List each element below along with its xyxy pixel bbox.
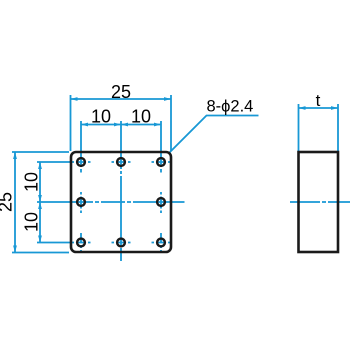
svg-text:t: t	[316, 91, 321, 110]
arrow 10-left mid-up	[38, 195, 42, 202]
centerline vertical col2 full	[120, 121, 122, 261]
centerline horizontal row2 full	[37, 201, 185, 203]
hole r1c3	[157, 158, 165, 166]
dimension line 25 top	[71, 98, 172, 100]
hole r3c1	[77, 239, 85, 247]
crosshair vertical hole r3c3	[160, 233, 162, 251]
side view outline	[299, 152, 339, 252]
extension line top-right (x=171)	[170, 95, 172, 151]
crosshair vertical hole r2c3	[160, 192, 162, 213]
arrow 25-top left	[71, 97, 78, 101]
dimension line 10-10 left	[39, 162, 41, 243]
extension line t right	[337, 104, 339, 151]
extension line t left	[298, 104, 300, 151]
centerline side view	[290, 201, 350, 203]
arrow 10-left top	[38, 162, 42, 169]
plate outline (front view)	[71, 152, 171, 252]
crosshair vertical hole r3c1	[80, 233, 82, 251]
hole r2c3	[157, 198, 165, 206]
hole r1c2	[117, 158, 125, 166]
arrow 25-left bottom	[13, 246, 17, 253]
arrow 10-top right	[154, 123, 161, 127]
arrow t left	[299, 106, 306, 110]
arrow 25-left top	[13, 152, 17, 159]
centerline horizontal row3	[37, 242, 91, 244]
arrow 10-top mid-left	[114, 123, 121, 127]
arrow 10-top left	[81, 123, 88, 127]
crosshair horizontal hole r1c2	[112, 161, 131, 163]
crosshair horizontal hole r3c2	[112, 242, 131, 244]
svg-text:8-ϕ2.4: 8-ϕ2.4	[207, 98, 254, 116]
svg-text:10: 10	[91, 107, 111, 127]
svg-text:25: 25	[0, 192, 16, 212]
crosshair horizontal hole r1c3	[152, 161, 172, 163]
dimension line 10-10 top	[81, 124, 161, 126]
extension line top-left (x=70.5)	[70, 95, 72, 151]
arrow 25-top right	[164, 97, 171, 101]
centerline vertical col3 through top hole	[160, 121, 162, 175]
crosshair horizontal hole r3c3	[152, 242, 172, 244]
leader line 8-phi2.4	[170, 116, 259, 153]
extension line left top (y=152)	[12, 151, 69, 153]
hole r1c1	[77, 158, 85, 166]
arrow t right	[331, 106, 338, 110]
svg-text:25: 25	[111, 82, 131, 102]
extension line left bottom (y=252)	[12, 252, 69, 254]
centerline horizontal row1	[37, 161, 91, 163]
centerline vertical col1 through top hole	[80, 121, 82, 175]
svg-text:10: 10	[131, 107, 151, 127]
svg-text:10: 10	[22, 172, 42, 192]
dimension line t	[299, 107, 339, 109]
hole r2c1	[77, 198, 85, 206]
hole r3c2	[117, 239, 125, 247]
arrow 10-left bottom	[38, 236, 42, 243]
dimension line 25 left	[14, 152, 16, 253]
svg-text:10: 10	[22, 212, 42, 232]
side view fill	[299, 152, 339, 252]
hole r3c3	[157, 239, 165, 247]
plate fill (front view)	[71, 152, 171, 252]
arrow 10-left mid-down	[38, 202, 42, 209]
crosshair vertical hole r2c1	[80, 192, 82, 213]
arrow 10-top mid-right	[121, 123, 128, 127]
